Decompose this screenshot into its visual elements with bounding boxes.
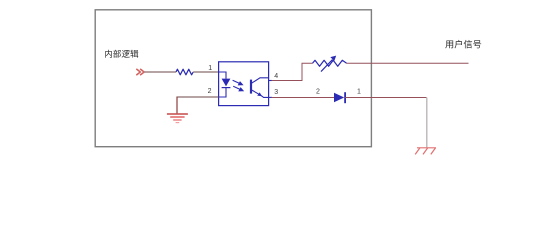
wire U1 pin 3 to D1: [269, 96, 272, 98]
wire U1 pin 4 to RV: [269, 80, 272, 82]
wire D1 to chassis ground: [345, 97, 427, 99]
optocoupler U1 body: [219, 62, 269, 106]
input port >>: [137, 69, 144, 74]
LED anode wire (pin1 side): [219, 72, 226, 79]
svg-text:4: 4: [274, 73, 278, 80]
chassis ground symbol: [415, 148, 436, 155]
wire U1 pin 2 to ground: [177, 96, 219, 98]
wire RV to user signal: [347, 62, 469, 64]
LED cathode wire (pin2 side): [219, 88, 226, 97]
phototransistor collector to pin 4: [251, 78, 269, 84]
earth ground symbol: [167, 114, 188, 123]
phototransistor Q (base bar): [250, 80, 252, 94]
svg-text:3: 3: [274, 89, 278, 96]
svg-text:2: 2: [208, 88, 212, 95]
wire input to R1: [145, 71, 177, 73]
svg-text:1: 1: [357, 89, 361, 96]
svg-text:1: 1: [208, 65, 212, 72]
wire R1 to U1 pin 1: [193, 71, 218, 73]
svg-text:2: 2: [316, 89, 320, 96]
variable resistor RV: [313, 60, 347, 66]
diode D1: [334, 93, 344, 103]
outer box: internal logic boundary: [95, 10, 371, 147]
phototransistor emitter to pin 3: [251, 90, 269, 98]
resistor R1: [176, 69, 193, 75]
LED D (emitter diode): [222, 79, 231, 87]
label 用户信号 (user signal): [445, 40, 481, 49]
light emission arrows: [233, 80, 243, 91]
label 内部逻辑 (internal logic): [105, 50, 138, 58]
